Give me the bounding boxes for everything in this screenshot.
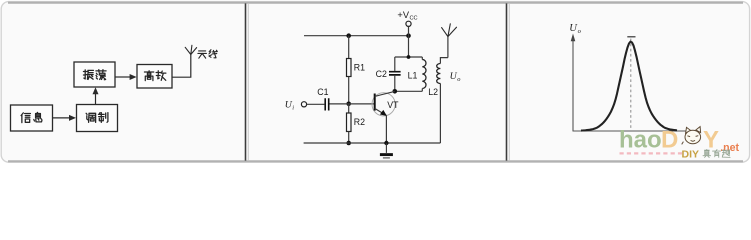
resistor R2	[347, 104, 352, 143]
x axis	[573, 130, 687, 132]
antenna symbol (middle panel)	[442, 24, 457, 37]
svg-text:D: D	[661, 126, 678, 153]
svg-text:C2: C2	[376, 69, 387, 79]
dashed line at resonance peak	[630, 39, 632, 131]
label Ui	[285, 100, 295, 112]
node Vcc-rail junction	[406, 33, 411, 38]
block 高放 (RF amplifier)	[137, 65, 172, 89]
svg-text:VT: VT	[387, 100, 399, 110]
wire Vcc terminal down to tank	[408, 26, 410, 57]
+Vcc terminal	[397, 10, 417, 26]
svg-text:i: i	[292, 104, 294, 111]
capacitor C2	[389, 57, 401, 91]
resonance curve	[581, 42, 677, 131]
wire tank bottom	[395, 90, 423, 92]
block 调制 (modulator)	[77, 105, 118, 132]
watermark pink dashes	[620, 152, 683, 154]
svg-text:R2: R2	[354, 117, 365, 127]
node collector/C2/tank junction	[393, 89, 398, 94]
svg-text:C1: C1	[317, 87, 328, 97]
svg-text:hao: hao	[619, 126, 662, 153]
block 信息 (information source)	[11, 105, 53, 131]
arrow 调制 up to 振荡	[93, 87, 99, 104]
node emitter-ground junction	[384, 141, 388, 145]
wire C1 to base	[330, 103, 374, 105]
wire 高放 to antenna mast	[172, 55, 191, 78]
watermark DIY真有趣	[682, 149, 731, 161]
svg-text:L2: L2	[428, 87, 438, 97]
panel separator left	[246, 3, 249, 160]
wire Vcc top rail	[304, 35, 409, 37]
outer rounded frame	[1, 2, 749, 163]
svg-text:CC: CC	[410, 16, 418, 22]
antenna symbol (left panel)	[185, 45, 196, 54]
svg-text:Y: Y	[703, 126, 719, 153]
svg-text:+V: +V	[397, 10, 409, 20]
label U0 (right panel)	[569, 23, 581, 35]
node R1-rail junction	[346, 33, 351, 38]
inductor L2 (secondary coil)	[437, 58, 448, 143]
inductor L1 (tank coil)	[422, 57, 426, 91]
node R2-ground junction	[346, 141, 351, 146]
label Uo	[450, 71, 461, 83]
wire Ui to C1	[307, 103, 325, 105]
node tank top / Vcc feed	[407, 55, 411, 59]
svg-text:R1: R1	[354, 62, 365, 72]
svg-text:DIY: DIY	[682, 149, 700, 161]
block 振荡 (oscillator)	[74, 62, 115, 87]
y axis U0	[571, 34, 576, 132]
capacitor C1	[325, 98, 329, 110]
wire antenna mast (middle)	[447, 37, 449, 58]
arrow 振荡 to 高放	[115, 74, 137, 80]
ground symbol	[380, 143, 393, 158]
panel separator right	[507, 3, 510, 160]
svg-text:L1: L1	[408, 70, 418, 80]
svg-text:o: o	[457, 76, 460, 83]
wire ground rail	[304, 142, 441, 144]
node base junction	[346, 102, 351, 107]
wire tank top	[395, 56, 423, 58]
transistor VT	[372, 91, 395, 143]
label 天线	[198, 50, 217, 58]
peak value tick	[627, 36, 635, 38]
resistor R1	[347, 36, 352, 104]
arrow 信息 to 调制	[53, 115, 77, 121]
watermark cat logo	[682, 127, 701, 145]
input terminal Ui	[301, 102, 306, 107]
